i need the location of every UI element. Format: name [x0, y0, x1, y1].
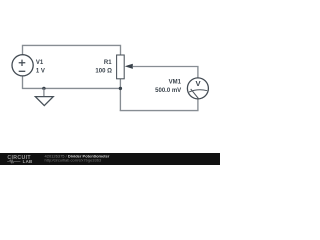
wire R1 bottom to junction: [119, 79, 121, 89]
voltage source V1: [12, 55, 33, 76]
ground: [35, 88, 53, 105]
svg-text:VM1: VM1: [169, 80, 182, 86]
node junction at R1 bottom: [119, 87, 122, 90]
wire R1 wiper to VM1 top: [133, 67, 198, 79]
footer bar: [0, 153, 220, 165]
svg-text:LAB: LAB: [23, 159, 33, 164]
wire lower rail to VM1 bottom: [120, 99, 198, 111]
node junction at ground tap: [42, 87, 45, 90]
svg-text:V1: V1: [36, 60, 44, 66]
svg-text:R1: R1: [104, 60, 112, 66]
wire junction down to lower rail: [119, 88, 121, 110]
svg-text:100 Ω: 100 Ω: [95, 68, 112, 74]
potentiometer R1: [117, 55, 133, 79]
svg-text:1 V: 1 V: [36, 68, 45, 74]
CircuitLab logo: [7, 155, 32, 164]
svg-text:500.0 mV: 500.0 mV: [155, 88, 181, 94]
wire V1 bottom: [22, 76, 24, 89]
svg-text:http:⁄⁄circuitlab.com⁄c⁄x7bge3: http:⁄⁄circuitlab.com⁄c⁄x7bge3363: [45, 158, 102, 163]
wire top rail from V1 top to R1 top: [23, 45, 121, 55]
voltmeter VM1: [187, 78, 208, 99]
wire bottom rail: [22, 87, 121, 89]
